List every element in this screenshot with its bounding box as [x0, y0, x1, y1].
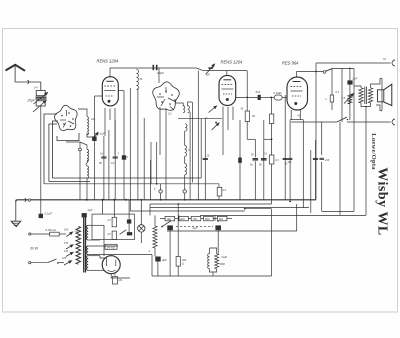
wire column x321.7 — [321, 122, 323, 155]
wire tube V5 cathode down — [289, 120, 291, 200]
oscillator tube V1 (top view) — [55, 105, 78, 130]
svg-text:60 W: 60 W — [31, 247, 38, 251]
junction dot bus — [244, 208, 246, 210]
electrolytic C23 black — [167, 225, 173, 230]
capacitor C25 0.1uF black — [39, 214, 43, 218]
electrolytic C24 black — [215, 225, 221, 230]
wave link — [86, 160, 88, 166]
junction dots on bus2 — [156, 183, 158, 185]
wire drop x215 — [214, 215, 216, 221]
resistor R8 vertical — [112, 217, 116, 227]
antenna coil L1b — [87, 166, 89, 178]
capacitor C19 — [313, 157, 318, 159]
tap arrow 130V — [66, 252, 73, 256]
svg-text:RES 964: RES 964 — [282, 61, 299, 66]
wire y68.4 to right — [333, 67, 355, 69]
capacitor C17 — [261, 158, 267, 160]
coupling capacitor C8 5nF black — [258, 95, 261, 100]
tube V5 RES 964 envelope — [287, 77, 308, 110]
svg-text:RENS 1264: RENS 1264 — [221, 60, 243, 65]
svg-text:2μF: 2μF — [192, 226, 198, 230]
tube V4 RENS 1264 envelope — [219, 75, 236, 105]
tone pot R5 with arrow — [348, 94, 352, 104]
power transformer T4 primary — [76, 227, 81, 265]
voltage divider resistor R10 zigzag — [153, 226, 157, 248]
wire column x205.3 — [204, 119, 206, 200]
tube V4 grid dashes — [222, 84, 234, 86]
wire box row joins — [175, 218, 179, 220]
wire coil column down — [86, 178, 88, 200]
capacitor C18 50n — [283, 157, 288, 159]
wire osc tube bottom frame — [57, 133, 79, 141]
mains wire top — [31, 233, 50, 235]
svg-text:220: 220 — [63, 229, 69, 232]
wire field top — [209, 248, 211, 254]
tube V4 pins — [222, 107, 224, 156]
svg-text:50Ω: 50Ω — [205, 218, 210, 221]
IF transformer T1 primary — [183, 106, 185, 113]
svg-text:0,1μF: 0,1μF — [98, 132, 106, 136]
wire vert x190 — [189, 112, 191, 200]
wire top right y63 — [316, 62, 391, 64]
trimmer capacitor C1 20pF — [36, 91, 45, 96]
wire vert x198.3 — [197, 71, 199, 200]
screen resistor R3 — [245, 111, 249, 122]
svg-text:125: 125 — [62, 257, 67, 260]
wire column x315.5 — [315, 140, 317, 200]
wire column x151 mid — [150, 142, 152, 184]
resistor R7 box mid — [269, 155, 274, 164]
capacitor C30 black — [127, 219, 131, 223]
wire vert x192.4 — [191, 102, 193, 183]
rectifier tube V6 label 14NG — [105, 244, 117, 249]
wire x156.7 — [156, 142, 158, 184]
svg-text:0,1: 0,1 — [111, 162, 115, 165]
bottom bus y276 — [152, 275, 272, 277]
ground symbol E1 — [15, 200, 17, 221]
grid resistor R2 0.1M oval — [274, 95, 282, 100]
wire x152 stub — [151, 255, 153, 277]
tube V2 pins — [104, 108, 106, 136]
wire column x303.3 — [302, 120, 304, 208]
IF trimmer C6 — [209, 106, 217, 113]
wire R11 — [177, 204, 179, 257]
svg-text:5000: 5000 — [220, 263, 226, 266]
wire tube2 grid line y70.6 — [197, 68, 204, 71]
wire column x130.3 — [129, 88, 131, 211]
svg-text:0,3: 0,3 — [275, 159, 279, 162]
wire secondary taps — [88, 224, 104, 226]
svg-text:220: 220 — [74, 231, 79, 233]
svg-text:5nF: 5nF — [256, 90, 261, 94]
wire fuse to tap — [59, 233, 66, 235]
svg-text:4μF: 4μF — [162, 258, 167, 262]
resistor box row RB5 2kO — [217, 216, 227, 220]
wire frame rectifier loop — [92, 214, 134, 240]
tube V5 anode bar — [293, 81, 301, 83]
wire osc coil top — [78, 109, 87, 117]
switch contact K1 — [159, 190, 162, 193]
jack J1 pickup top — [392, 60, 394, 66]
wire R13 — [114, 274, 116, 277]
resistor R9 vertical — [112, 231, 116, 240]
resistor R13 below rectifier — [113, 277, 118, 285]
wire cap to resistor — [261, 96, 274, 98]
wire x102.6 drop — [102, 200, 104, 214]
IF transformer T2 coil — [185, 124, 187, 131]
wire x340 lamp return — [339, 122, 341, 215]
wire IF frame — [175, 103, 183, 106]
capacitor C28 black on x240 — [238, 158, 242, 163]
wire column x115.2 — [114, 120, 116, 200]
svg-text:2kΩ: 2kΩ — [219, 218, 224, 221]
wire column x271.5 long — [271, 97, 273, 114]
rf coil L4 on top line — [137, 70, 139, 90]
wire R3 to C16 jog — [246, 122, 248, 140]
wire right column x342 — [341, 68, 343, 122]
capacitor C10 2nF black — [347, 80, 352, 84]
svg-text:2kΩ: 2kΩ — [180, 218, 185, 221]
padder trimmer arrow — [92, 133, 98, 140]
capacitor C16 5n — [253, 158, 259, 160]
wire column x94.5 — [94, 96, 96, 136]
fuse F1 0.5/0.1A — [50, 232, 60, 236]
bus y211 — [130, 210, 245, 212]
output transformer T3 secondary — [368, 88, 372, 103]
bus y183.8 — [44, 183, 219, 185]
wire column x310.8 — [310, 150, 312, 213]
tube V5 cathode dot — [294, 102, 297, 105]
tap arrow 120V — [64, 261, 72, 265]
mains cord end top — [29, 233, 31, 235]
wire column x219 — [218, 184, 220, 188]
capacitor C26 2nF right — [319, 157, 324, 159]
tube V5 pins — [290, 110, 292, 120]
tube V4 anode bar — [224, 79, 232, 81]
wire column x150.5 — [150, 160, 152, 200]
resistor box row RB4 50O — [204, 216, 214, 220]
bus y215.4 — [200, 214, 366, 216]
tube V2 RENS 1284 envelope — [102, 77, 118, 106]
svg-text:0,5/0,1A: 0,5/0,1A — [46, 228, 57, 232]
wire contact leads — [79, 142, 81, 148]
svg-text:130: 130 — [64, 250, 69, 253]
power transformer T4 secondary HV — [86, 225, 88, 240]
tap arrow 220V — [66, 232, 72, 237]
mixer tube V3 (top view) — [153, 82, 180, 111]
svg-text:RENS 1284: RENS 1284 — [97, 59, 119, 64]
svg-text:2nF: 2nF — [352, 77, 358, 81]
wire mixer grid cap drop — [158, 68, 160, 83]
switch S4 power section — [162, 221, 171, 227]
switch S1 gramophone contact — [323, 71, 326, 74]
wire contact K2 lead — [184, 193, 186, 200]
wire bottom right y122 — [347, 121, 391, 123]
capacitor C14 black — [122, 155, 126, 159]
speaker LS frame — [376, 78, 382, 111]
switch S1 blade — [326, 68, 333, 71]
wire caps column — [128, 200, 130, 220]
wire R10 — [154, 215, 156, 226]
svg-text:20pF: 20pF — [156, 71, 164, 75]
wire column x144.2 — [143, 118, 145, 200]
svg-text:7pF: 7pF — [205, 73, 210, 77]
tap arrow 150V — [66, 245, 73, 249]
wire C23 down — [169, 230, 171, 276]
pilot lamp jack L5 — [330, 95, 333, 102]
speaker LS cone — [384, 84, 392, 105]
capacitor C11 0.1uF black — [92, 136, 96, 141]
svg-text:2nF: 2nF — [324, 159, 330, 162]
wire switch to tap — [58, 262, 64, 264]
wire IF mid line y118.7 — [178, 118, 222, 120]
capacitor C31 black — [127, 232, 132, 235]
switch contact K2 — [183, 190, 186, 193]
svg-text:Ω: Ω — [182, 263, 184, 266]
trimmer capacitor C2 — [36, 101, 45, 106]
svg-text:TA: TA — [383, 58, 386, 61]
antenna coil L1a — [87, 149, 89, 161]
mains wire bottom — [31, 262, 47, 264]
wire trimmer down — [40, 106, 42, 214]
resistor box row RB3 750 — [191, 216, 201, 220]
switch contact wave change — [79, 148, 82, 151]
wire tube2 top cap drop — [226, 71, 228, 76]
wire x184.7 segments — [184, 131, 186, 146]
capacitor C4 series 20pF — [153, 65, 155, 70]
wire frame left bandfilter 2 — [52, 121, 58, 178]
screen resistor R4 — [269, 114, 273, 124]
svg-text:150: 150 — [64, 242, 69, 245]
tube V5 grid dashes — [291, 86, 303, 88]
IF transformer T1 secondary — [188, 106, 190, 113]
wire transformer top — [354, 86, 361, 88]
capacitor C13 — [113, 156, 118, 158]
wire tube V5 top cap — [296, 72, 298, 78]
bus y178 — [52, 177, 201, 179]
wire bus corner x150 — [149, 204, 151, 215]
power transformer T4 secondary heater — [86, 256, 88, 271]
wire C22 down — [157, 262, 159, 277]
oscillator coil L2 — [87, 117, 89, 135]
dial lamp L7 crossed — [138, 225, 145, 232]
wire antenna lead — [15, 81, 41, 83]
svg-text:Wisby WL: Wisby WL — [375, 167, 390, 235]
bus y208.7 segment — [245, 208, 272, 210]
svg-text:NG: NG — [119, 279, 123, 282]
wire column x263.8 — [263, 120, 265, 200]
wire x296.7 segment — [296, 204, 298, 231]
tube V2 grid dashes — [104, 85, 115, 87]
wire to trimmer — [40, 82, 42, 91]
field resistor R12 zigzag — [215, 254, 219, 269]
capacitor C29 2uF black — [82, 213, 87, 217]
connector plug antenna — [28, 80, 29, 84]
tube V2 anode bar — [106, 80, 113, 82]
wire x271.5 vertical down — [271, 209, 273, 276]
power transformer T4 core — [83, 215, 85, 273]
wire C24 down — [217, 230, 219, 254]
wire C16 down — [254, 161, 256, 200]
mains switch S3 — [47, 259, 56, 263]
wire tube V4 anode right — [236, 96, 258, 98]
wire tube V2 top cap — [109, 68, 111, 78]
mains cord end bottom — [29, 262, 31, 264]
output transformer T3 core — [364, 87, 366, 105]
svg-text:50n: 50n — [288, 161, 293, 164]
svg-text:2,5: 2,5 — [341, 97, 346, 100]
speaker LS magnet — [378, 90, 384, 102]
wire frame left bandfilter — [44, 114, 57, 184]
wire top grid line y68 — [110, 67, 197, 69]
svg-text:Feld: Feld — [222, 255, 228, 259]
wire mixer pins down — [159, 107, 161, 155]
resistor box row RB1 1kO — [165, 216, 175, 220]
wire resistor to tube V5 — [282, 96, 286, 98]
resistor R11 400ohm — [176, 257, 180, 267]
IF coil L10 on x184.7 — [185, 146, 187, 157]
tube V2 cathode dot — [108, 100, 111, 103]
wire column x103.9 — [103, 155, 105, 200]
wire osc to coil bottom — [87, 133, 95, 137]
capacitor C12 50pF — [101, 156, 106, 158]
wire left column x316 — [315, 63, 317, 200]
wire vert x201.2 — [200, 119, 202, 178]
power transformer T4 secondary mid — [86, 246, 88, 254]
bus y211.4 to x354 — [322, 210, 354, 212]
wire x349.9 down — [349, 68, 351, 120]
capacitor C27 5n on V5 column — [288, 157, 293, 159]
switch S5 blade — [120, 230, 127, 235]
wire rectifier cathode out — [111, 274, 130, 278]
wire x354 long vertical — [353, 68, 355, 211]
wire tube V2 side exits — [118, 90, 124, 92]
svg-text:0,1μF: 0,1μF — [45, 212, 53, 216]
resistor R6 0.3M box — [217, 187, 222, 196]
antenna A1 — [6, 65, 26, 71]
field coil L9 — [208, 254, 210, 269]
svg-text:20pF: 20pF — [27, 99, 36, 103]
wire column x108.9 — [108, 130, 110, 200]
output transformer T3 primary — [359, 88, 363, 103]
wire jog y139.3 bridge2 — [264, 138, 272, 140]
ground bus y199.8 heavy — [16, 200, 316, 202]
resistor box row RB2 2kO — [179, 216, 189, 220]
wire column x166 — [165, 160, 167, 200]
heater wire y231 — [167, 230, 297, 232]
wire transformer bottom — [361, 103, 371, 107]
wire column x240 — [239, 120, 241, 200]
svg-text:0,1MΩ: 0,1MΩ — [274, 91, 282, 95]
wire column x137.9 — [137, 88, 139, 200]
wire pin join y119.6 — [290, 119, 303, 121]
IF trimmer C7 — [212, 123, 220, 130]
wire column x285.2 — [284, 95, 286, 200]
switch S2 bottom right — [337, 117, 347, 122]
IF coil L11 on x184.7 — [185, 164, 187, 175]
bus junction dots power — [86, 199, 88, 201]
tube V4 cathode dot — [226, 98, 229, 101]
svg-text:750: 750 — [193, 218, 198, 221]
rectifier tube V6 — [102, 256, 120, 274]
wire x366 speaker return — [365, 107, 367, 216]
dashed wire 2uF — [176, 226, 213, 228]
wire contact K1 leads — [160, 184, 162, 190]
wire lamp L7 — [140, 200, 142, 225]
capacitor C22 4uF black — [155, 257, 160, 262]
junction dot IF — [215, 122, 217, 124]
svg-text:2μF: 2μF — [87, 208, 93, 212]
wire coil top link — [66, 142, 87, 149]
wire right of tube2 x247.2 — [246, 71, 248, 111]
svg-text:14 NG: 14 NG — [107, 245, 116, 249]
connector on ground bus — [25, 198, 26, 202]
capacitor C15 — [203, 157, 208, 159]
svg-text:100: 100 — [91, 118, 96, 121]
wire column x124 — [123, 91, 125, 200]
jack J2 pickup bottom — [392, 119, 394, 125]
wire rectifier anodes — [103, 225, 105, 256]
bus y207.6 — [150, 207, 309, 209]
bus y204 — [150, 203, 272, 205]
svg-text:Loewe/Opta: Loewe/Opta — [370, 133, 377, 170]
wire boxes column — [113, 200, 115, 218]
wire drop x179 — [178, 215, 180, 221]
grid trimmer C5 — [206, 64, 215, 74]
wire lamp column — [331, 68, 333, 90]
wire field bottom — [210, 269, 217, 272]
